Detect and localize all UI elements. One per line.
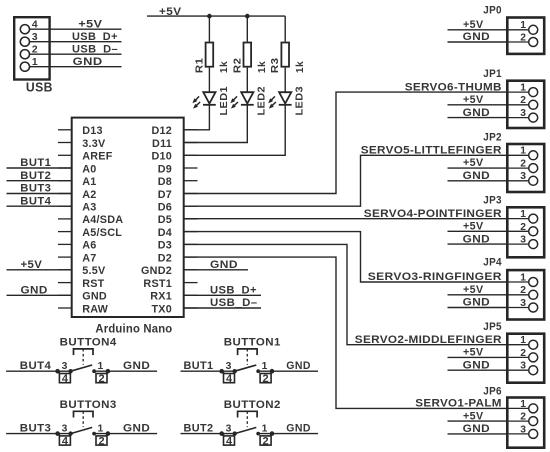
wire +5V to JP5	[448, 356, 507, 358]
net label USB_D+ (RX1)	[210, 285, 257, 297]
net label +5V (JP4)	[463, 284, 484, 296]
svg-text:GND: GND	[286, 360, 311, 372]
BUTTON3 pin number 4	[62, 436, 69, 448]
wire RX1 to USB_D+	[184, 294, 261, 296]
net label BUT1	[20, 157, 51, 169]
U1 left pin stub GND	[58, 294, 72, 296]
net label USB_D+	[72, 31, 118, 43]
label USB	[26, 81, 53, 95]
svg-text:2: 2	[520, 348, 526, 359]
U1 pin name A0	[82, 163, 96, 175]
BUTTON4 pin 4 box	[59, 374, 70, 383]
svg-text:BUT3: BUT3	[20, 423, 52, 435]
U1 pin name D11	[152, 138, 172, 150]
U1 pin name A4/SDA	[82, 214, 123, 226]
U1 right pin stub D8	[184, 180, 198, 182]
BUTTON1 pin 4 box	[224, 374, 235, 383]
JP5 pin 1 circle	[529, 340, 538, 349]
U1 left pin stub A7	[58, 256, 72, 258]
JP5 pin 2 circle	[529, 353, 538, 362]
BUTTON1 pin number 4	[226, 373, 233, 385]
svg-text:RAW: RAW	[82, 303, 108, 315]
connector JP2 label	[483, 132, 502, 144]
JP1 pin 2 circle	[529, 100, 538, 109]
svg-text:3: 3	[520, 298, 526, 309]
svg-text:BUTTON1: BUTTON1	[224, 337, 281, 349]
JP0 pin number 2	[520, 32, 526, 43]
connector JP4 body	[507, 270, 544, 319]
wire D2 to JP6 (SERVO1-PALM)	[184, 257, 506, 408]
connector JP0 body	[507, 18, 544, 54]
BUTTON1 actuator dashed link	[246, 349, 248, 365]
svg-text:D2: D2	[158, 252, 172, 264]
BUTTON4 actuator dashed link	[82, 349, 84, 365]
svg-text:GND: GND	[286, 423, 311, 435]
svg-text:D7: D7	[158, 189, 172, 201]
wire BUTTON4 to GND	[94, 370, 157, 372]
svg-text:BUTTON2: BUTTON2	[224, 399, 281, 411]
net label BUT2	[20, 170, 51, 182]
net label GND (BUTTON1)	[286, 360, 311, 372]
resistor R2 body	[244, 43, 252, 67]
net label SERVO4-POINTFINGER (JP3)	[364, 208, 502, 220]
svg-text:1: 1	[520, 83, 526, 94]
svg-text:2: 2	[520, 32, 526, 43]
net label BUT3	[20, 423, 52, 435]
BUTTON1 junction dot right	[270, 369, 275, 374]
wire GND to JP3	[448, 243, 507, 245]
BUTTON4 lever	[71, 365, 93, 371]
wire LED3 to Arduino	[185, 105, 286, 156]
U1 pin name D5	[158, 214, 172, 226]
JP3 pin 2 wire into box	[506, 230, 529, 232]
LED LED3 triangle	[279, 92, 291, 103]
svg-text:D10: D10	[151, 151, 172, 163]
U1 left pin stub RST	[58, 282, 72, 284]
U1 pin name D6	[158, 202, 172, 214]
BUTTON3 pin number 3	[62, 423, 68, 434]
BUTTON4 pin 2 leg	[106, 371, 108, 373]
wire BUTTON1 to GND	[258, 370, 318, 372]
net label +5V (JP6)	[463, 410, 484, 422]
svg-text:2: 2	[263, 436, 269, 448]
wire BUTTON2 to GND	[258, 433, 318, 435]
svg-text:BUT1: BUT1	[20, 157, 51, 169]
U1 left pin stub A6	[58, 243, 72, 245]
wire +5V to JP0	[448, 29, 507, 31]
JP5 pin 2 wire into box	[506, 356, 529, 358]
BUTTON2 junction dot right	[270, 431, 275, 436]
wire GND to JP2	[448, 180, 507, 182]
BUTTON3 lever	[71, 427, 93, 433]
svg-text:1: 1	[98, 423, 104, 434]
svg-text:A6: A6	[82, 240, 96, 252]
svg-text:GND: GND	[463, 233, 491, 245]
BUTTON3 pin number 2	[98, 436, 104, 448]
wire D4 to JP4 (SERVO3-RINGFINGER)	[184, 232, 506, 282]
switch BUTTON2 label	[224, 399, 281, 411]
wire R2 to LED2	[246, 68, 248, 93]
svg-text:1: 1	[520, 20, 526, 31]
switch BUTTON4 label	[60, 337, 118, 349]
JP0 pin number 1	[520, 20, 526, 31]
JP4 pin 3 circle	[529, 303, 538, 312]
JP6 pin 1 circle	[529, 404, 538, 413]
JP1 pin 2 wire into box	[506, 104, 529, 106]
resistor designator R1	[193, 58, 205, 74]
svg-text:D13: D13	[82, 125, 103, 137]
switch BUTTON3 label	[60, 399, 117, 411]
resistor value 1k (R2)	[256, 61, 268, 73]
svg-text:D6: D6	[158, 202, 172, 214]
net label +5V (JP1)	[463, 94, 484, 106]
svg-text:BUT3: BUT3	[20, 183, 51, 195]
wire BUT1 to A0	[7, 167, 72, 169]
wire USB pin4 to +5V	[30, 28, 122, 30]
JP0 pin 2 wire into box	[506, 41, 529, 43]
wire +5V to JP4	[448, 294, 507, 296]
U1 pin name 3.3V	[82, 138, 106, 150]
U1 left pin stub A4/SDA	[58, 218, 72, 220]
BUTTON3 contact right (pin 1)	[92, 432, 96, 436]
JP6 pin 2 circle	[529, 417, 538, 426]
svg-text:3: 3	[226, 423, 232, 434]
resistor designator R2	[231, 58, 243, 74]
U1 pin name RAW	[82, 303, 108, 315]
BUTTON2 pin number 4	[226, 436, 233, 448]
svg-text:USB_D–: USB_D–	[210, 297, 258, 309]
wire D7 to JP1 (SERVO6-THUMB)	[184, 92, 506, 193]
junction rail/R1	[207, 14, 212, 19]
BUTTON1 pin 2 leg	[270, 371, 272, 373]
svg-text:D4: D4	[158, 227, 172, 239]
U1 pin name TX0	[151, 303, 172, 315]
svg-text:1: 1	[98, 361, 104, 372]
USB pin 2 circle	[20, 50, 29, 59]
wire GND to JP0	[448, 41, 507, 43]
JP0 pin 2 circle	[529, 38, 538, 47]
wire +5V to JP2	[448, 167, 507, 169]
JP0 pin 1 circle	[529, 25, 538, 34]
U1 pin name RST1	[143, 278, 172, 290]
U1 left pin stub A2	[58, 193, 72, 195]
JP4 pin number 1	[520, 272, 526, 283]
BUTTON3 junction dot right	[106, 431, 111, 436]
net label GND (BUTTON4)	[123, 360, 150, 372]
connector JP6 label	[483, 385, 502, 397]
JP2 pin 3 wire into box	[506, 180, 529, 182]
LED LED2 emission arrow b	[231, 102, 238, 109]
svg-text:1: 1	[520, 209, 526, 220]
U1 left pin stub A3	[58, 205, 72, 207]
USB pin number 2	[32, 45, 38, 56]
svg-text:JP1: JP1	[483, 68, 502, 80]
BUTTON2 lever	[235, 427, 257, 433]
svg-text:GND: GND	[82, 291, 107, 303]
svg-text:+5V: +5V	[159, 6, 182, 18]
JP5 pin number 1	[520, 335, 526, 346]
JP2 pin number 3	[520, 171, 526, 182]
wire +5V to JP3	[448, 230, 507, 232]
BUTTON4 pin number 3	[62, 361, 68, 372]
svg-text:BUT4: BUT4	[20, 360, 52, 372]
connector JP1 body	[507, 81, 544, 128]
connector JP3 label	[483, 195, 502, 207]
LED designator LED3	[294, 86, 306, 116]
svg-text:GND: GND	[21, 285, 48, 297]
U1 pin name A1	[82, 176, 96, 188]
svg-text:4: 4	[62, 436, 69, 448]
BUTTON2 pin number 3	[226, 423, 232, 434]
wire BUT3 to BUTTON3	[6, 433, 71, 435]
U1 pin name D2	[158, 252, 172, 264]
U1 pin name GND2	[141, 265, 172, 277]
net label GND (GND2)	[210, 259, 238, 271]
wire GND to JP6	[448, 433, 507, 435]
JP6 pin 3 wire into box	[506, 433, 529, 435]
svg-text:BUT2: BUT2	[20, 170, 51, 182]
net label BUT2	[184, 423, 214, 435]
svg-text:3: 3	[62, 361, 68, 372]
JP0 pin 1 wire into box	[506, 29, 529, 31]
connector JP6 body	[507, 398, 544, 448]
BUTTON2 junction dot left	[219, 431, 224, 436]
U1 right pin stub D12	[184, 129, 198, 131]
BUTTON2 pin number 2	[263, 436, 269, 448]
BUTTON1 pin number 1	[262, 361, 268, 372]
wire BUT3 to A2	[7, 193, 72, 195]
JP4 pin 3 wire into box	[506, 307, 529, 309]
BUTTON1 contact right (pin 1)	[256, 369, 260, 373]
wire LED2 to Arduino	[185, 105, 248, 143]
U1 pin name A6	[82, 240, 96, 252]
U1 pin name 5.5V	[82, 265, 106, 277]
BUTTON4 junction dot right	[106, 369, 111, 374]
svg-text:JP3: JP3	[483, 195, 502, 207]
svg-text:3: 3	[62, 423, 68, 434]
net label +5V (rail)	[159, 6, 182, 18]
U1 left pin stub A5/SCL	[58, 231, 72, 233]
LED LED3 emission arrow a	[268, 96, 275, 103]
net label GND (JP4)	[463, 297, 491, 309]
connector JP1 label	[483, 68, 502, 80]
svg-text:+5V: +5V	[463, 19, 484, 31]
U1 right pin stub D3	[184, 243, 198, 245]
JP6 pin 1 wire into box	[506, 407, 529, 409]
U1 left pin stub 5.5V	[58, 269, 72, 271]
svg-text:BUT4: BUT4	[20, 195, 51, 207]
wire BUT2 to BUTTON2	[181, 433, 235, 435]
svg-text:4: 4	[226, 373, 233, 385]
U1 left pin stub 3.3V	[58, 142, 72, 144]
svg-text:2: 2	[520, 95, 526, 106]
BUTTON1 pin 2 box	[260, 374, 271, 383]
U1 right pin stub D4	[184, 231, 198, 233]
svg-text:3.3V: 3.3V	[82, 138, 106, 150]
svg-text:Arduino Nano: Arduino Nano	[95, 324, 172, 336]
U1 pin name D8	[158, 176, 172, 188]
BUTTON4 actuator bracket	[74, 349, 94, 355]
svg-text:1: 1	[262, 423, 268, 434]
svg-text:R2: R2	[231, 58, 243, 74]
svg-text:D5: D5	[158, 214, 172, 226]
switch BUTTON1 label	[224, 337, 281, 349]
svg-text:D8: D8	[158, 176, 172, 188]
resistor R1 body	[206, 43, 214, 67]
svg-text:1: 1	[520, 335, 526, 346]
JP4 pin number 2	[520, 285, 526, 296]
label Arduino Nano	[95, 324, 172, 336]
svg-text:TX0: TX0	[151, 303, 172, 315]
BUTTON4 contact left (pin 3)	[68, 369, 72, 373]
JP3 pin 2 circle	[529, 227, 538, 236]
JP1 pin 1 circle	[529, 88, 538, 97]
svg-text:A5/SCL: A5/SCL	[82, 227, 122, 239]
svg-text:GND: GND	[210, 259, 238, 271]
BUTTON1 pin 4 leg	[223, 371, 225, 373]
JP1 pin 1 wire into box	[506, 91, 529, 93]
svg-text:A3: A3	[82, 202, 96, 214]
JP4 pin 2 circle	[529, 290, 538, 299]
svg-text:3: 3	[226, 361, 232, 372]
JP4 pin 1 circle	[529, 278, 538, 287]
connector JP3 body	[507, 207, 544, 257]
JP2 pin 3 circle	[529, 176, 538, 185]
net label +5V (JP3)	[463, 221, 484, 233]
wire GND to JP1	[448, 117, 507, 119]
svg-text:USB_D–: USB_D–	[72, 43, 118, 55]
svg-text:JP6: JP6	[483, 385, 502, 397]
net label GND (JP6)	[463, 423, 491, 435]
LED LED2 cathode bar	[241, 104, 254, 106]
JP3 pin 3 circle	[529, 240, 538, 249]
JP2 pin 1 circle	[529, 151, 538, 160]
wire +5V to JP1	[448, 104, 507, 106]
svg-text:+5V: +5V	[21, 259, 43, 271]
net label +5V (U1)	[21, 259, 43, 271]
BUTTON4 pin number 2	[98, 373, 104, 385]
BUTTON2 pin 2 leg	[270, 434, 272, 436]
svg-text:JP5: JP5	[483, 321, 502, 333]
wire GND2	[184, 269, 248, 271]
svg-text:+5V: +5V	[463, 94, 484, 106]
BUTTON3 actuator bracket	[74, 411, 94, 417]
connector J-USB body	[14, 17, 49, 79]
LED LED1 triangle	[203, 92, 215, 103]
U1 right pin stub D10	[184, 154, 198, 156]
JP6 pin number 3	[520, 424, 526, 435]
svg-text:GND: GND	[123, 423, 150, 435]
U1 right pin stub D11	[184, 142, 198, 144]
U1 pin name D10	[151, 151, 172, 163]
JP4 pin 2 wire into box	[506, 294, 529, 296]
JP6 pin number 1	[520, 399, 526, 410]
LED LED1 emission arrow b	[193, 102, 200, 109]
svg-text:GND: GND	[463, 31, 491, 43]
U1 pin name D7	[158, 189, 172, 201]
U1 pin name RST	[82, 278, 104, 290]
wire rail to R1	[208, 16, 210, 41]
U1 right pin stub D5	[184, 218, 198, 220]
svg-text:2: 2	[520, 412, 526, 423]
wire D3 to JP5 (SERVO2-MIDDLEFINGER)	[184, 244, 506, 344]
svg-text:A2: A2	[82, 189, 96, 201]
connector JP2 body	[507, 144, 544, 192]
svg-text:USB_D+: USB_D+	[210, 285, 257, 297]
svg-text:3: 3	[520, 171, 526, 182]
BUTTON2 actuator dashed link	[246, 411, 248, 427]
svg-text:1k: 1k	[218, 61, 230, 73]
JP1 pin 3 wire into box	[506, 117, 529, 119]
JP5 pin 3 wire into box	[506, 369, 529, 371]
wire BUTTON3 to GND	[94, 433, 157, 435]
U1 right pin stub D9	[184, 167, 198, 169]
wire +5V to 5.5V pin	[7, 269, 72, 271]
svg-text:5.5V: 5.5V	[82, 265, 106, 277]
BUTTON1 pin number 3	[226, 361, 232, 372]
U1 right pin stub RST1	[184, 282, 198, 284]
svg-text:+5V: +5V	[463, 157, 484, 169]
JP2 pin number 2	[520, 159, 526, 170]
LED designator LED2	[256, 86, 268, 116]
LED LED2 triangle	[241, 92, 253, 103]
svg-text:GND2: GND2	[141, 265, 172, 277]
BUTTON2 actuator bracket	[238, 411, 258, 417]
svg-text:BUT2: BUT2	[184, 423, 214, 435]
net label +5V (JP0)	[463, 19, 484, 31]
svg-text:3: 3	[520, 108, 526, 119]
net label USB_D-	[72, 43, 118, 55]
USB pin 1 circle	[20, 62, 29, 71]
USB pin 4 circle	[20, 25, 29, 34]
wire GND to JP5	[448, 369, 507, 371]
net label +5V (JP2)	[463, 157, 484, 169]
U1 right pin stub D2	[184, 256, 198, 258]
BUTTON2 contact left (pin 3)	[233, 431, 237, 435]
svg-text:2: 2	[263, 373, 269, 385]
wire rail to R2	[246, 16, 248, 41]
JP3 pin 3 wire into box	[506, 243, 529, 245]
USB pin number 1	[32, 57, 38, 68]
svg-text:2: 2	[520, 159, 526, 170]
svg-text:BUTTON4: BUTTON4	[60, 337, 118, 349]
wire GND to GND pin	[7, 294, 72, 296]
JP1 pin number 2	[520, 95, 526, 106]
U1 pin name A5/SCL	[82, 227, 122, 239]
U1 pin name D4	[158, 227, 172, 239]
net label SERVO5-LITTLEFINGER (JP2)	[361, 145, 502, 157]
BUTTON2 contact right (pin 1)	[256, 432, 260, 436]
LED designator LED1	[218, 86, 230, 115]
resistor R3 body	[281, 43, 289, 67]
net label GND (BUTTON2)	[286, 423, 311, 435]
svg-text:USB: USB	[26, 81, 53, 95]
U1 right pin stub TX0	[184, 307, 198, 309]
svg-text:A7: A7	[82, 252, 96, 264]
svg-text:A4/SDA: A4/SDA	[82, 214, 123, 226]
svg-text:+5V: +5V	[463, 221, 484, 233]
+5V power rail wire	[147, 15, 285, 17]
svg-text:BUTTON3: BUTTON3	[60, 399, 117, 411]
svg-text:GND: GND	[463, 423, 491, 435]
net label BUT1	[184, 360, 214, 372]
net label GND (JP5)	[463, 359, 491, 371]
net label SERVO2-MIDDLEFINGER (JP5)	[355, 334, 502, 346]
svg-text:D9: D9	[158, 163, 172, 175]
svg-text:1k: 1k	[256, 61, 268, 73]
wire D6 to JP2 (SERVO5-LITTLEFINGER)	[184, 155, 506, 206]
svg-text:+5V: +5V	[463, 410, 484, 422]
